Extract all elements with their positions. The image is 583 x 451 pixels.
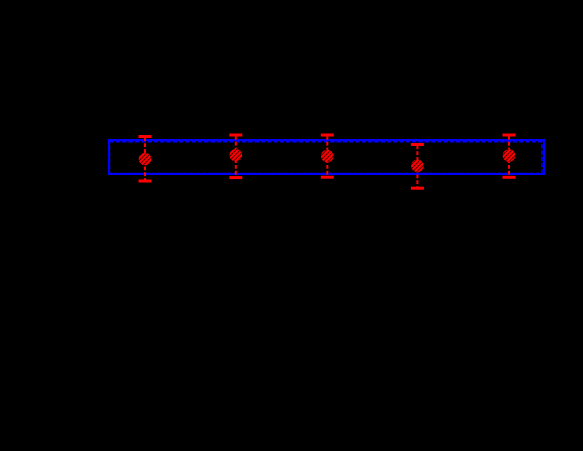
blue band dashed box: [110, 142, 543, 174]
data point 1 error bar: [139, 135, 152, 183]
data point 4 error bar: [411, 143, 424, 190]
blue band solid box: [109, 140, 544, 174]
data point 5 marker: [503, 149, 516, 162]
data point 3 marker: [321, 150, 334, 163]
data point 1 marker: [139, 153, 152, 166]
data point 3 error bar: [321, 134, 334, 179]
data point 2 marker: [230, 149, 243, 162]
data point 4 marker: [411, 160, 424, 173]
data point 5 error bar: [503, 134, 516, 179]
data point 2 error bar: [229, 134, 242, 180]
